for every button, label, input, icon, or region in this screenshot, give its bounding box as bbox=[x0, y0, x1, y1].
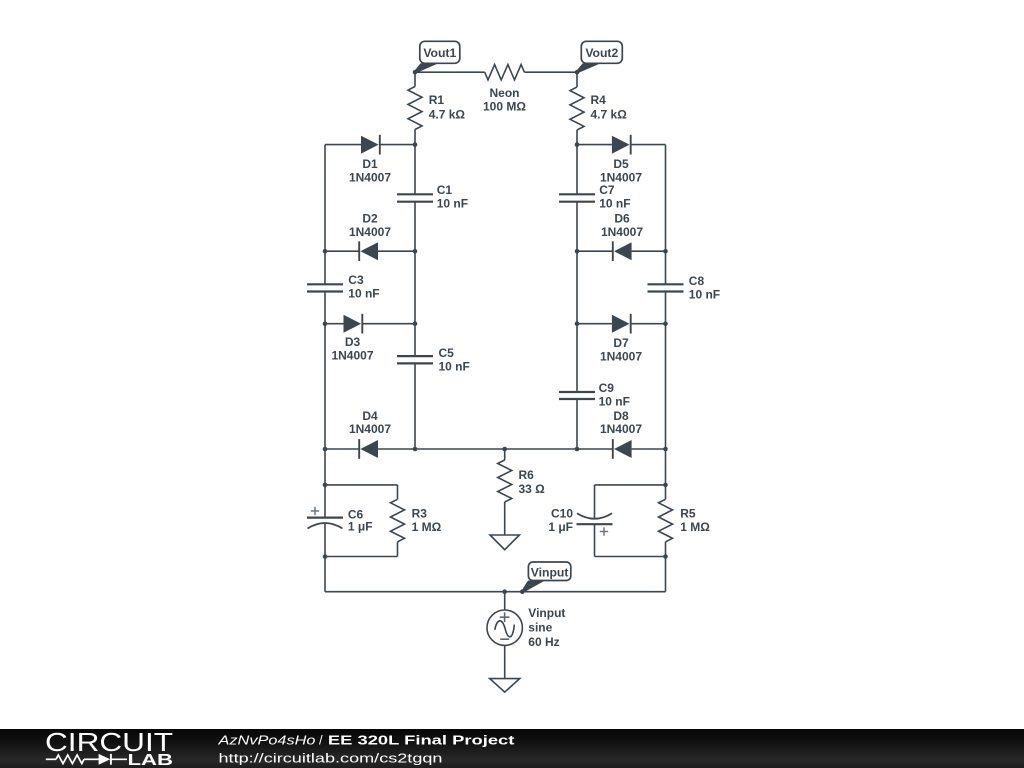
resistor R5 bbox=[659, 499, 673, 591]
diode D1 bbox=[325, 135, 415, 155]
logo resistor-diode line bbox=[46, 754, 127, 765]
node D2 left junction bbox=[323, 249, 328, 254]
capacitor C3 bbox=[307, 284, 343, 291]
svg-text:1N4007: 1N4007 bbox=[600, 349, 642, 363]
node D4 right junction bbox=[413, 447, 418, 452]
svg-text:R6: R6 bbox=[519, 468, 535, 482]
svg-text:1N4007: 1N4007 bbox=[349, 225, 391, 239]
capacitor C1 bbox=[397, 194, 433, 201]
capacitor C7 bbox=[559, 194, 595, 201]
svg-text:C8: C8 bbox=[689, 274, 705, 288]
wire top rail left (Vout1 to Neon) bbox=[415, 71, 485, 73]
svg-text:Vout1: Vout1 bbox=[423, 46, 456, 60]
node at Vout1 bbox=[413, 70, 418, 75]
node R5 top junction bbox=[663, 483, 668, 488]
flag Vout1 bbox=[414, 41, 460, 73]
svg-text:C1: C1 bbox=[437, 183, 453, 197]
diode D4 bbox=[325, 439, 415, 459]
svg-text:R1: R1 bbox=[429, 93, 445, 107]
svg-text:Vinput: Vinput bbox=[531, 565, 569, 579]
svg-text:D1: D1 bbox=[362, 157, 378, 171]
wire left rail of left ladder (x=325) bbox=[324, 145, 326, 285]
svg-text:10 nF: 10 nF bbox=[599, 395, 630, 409]
node D6 right junction bbox=[663, 249, 668, 254]
resistor R3 bbox=[391, 485, 405, 557]
svg-text:1N4007: 1N4007 bbox=[349, 422, 391, 436]
node C6 top junction bbox=[323, 483, 328, 488]
svg-text:EE 320L Final Project: EE 320L Final Project bbox=[328, 732, 515, 747]
node D3 right junction bbox=[413, 321, 418, 326]
svg-text:4.7 kΩ: 4.7 kΩ bbox=[429, 107, 466, 121]
svg-text:60 Hz: 60 Hz bbox=[528, 635, 559, 649]
wire bottom net bbox=[325, 591, 666, 593]
svg-text:D4: D4 bbox=[362, 409, 378, 423]
svg-text:D3: D3 bbox=[345, 335, 361, 349]
node D8 left junction bbox=[575, 447, 580, 452]
diode D3 bbox=[325, 314, 415, 334]
svg-text:1N4007: 1N4007 bbox=[600, 422, 642, 436]
node D6 left junction bbox=[575, 249, 580, 254]
svg-text:C3: C3 bbox=[348, 273, 364, 287]
resistor R4 bbox=[576, 72, 578, 87]
svg-text:1 MΩ: 1 MΩ bbox=[680, 520, 710, 534]
resistor R6 bbox=[498, 449, 512, 535]
node at Vout2 bbox=[575, 70, 580, 75]
node R6 top junction bbox=[502, 447, 507, 452]
svg-text:/: / bbox=[319, 732, 323, 747]
svg-text:1N4007: 1N4007 bbox=[600, 170, 642, 184]
diode D6 bbox=[577, 241, 666, 261]
svg-text:R5: R5 bbox=[680, 507, 696, 521]
diode D5 bbox=[577, 135, 666, 155]
svg-text:10 nF: 10 nF bbox=[439, 359, 470, 373]
diode D8 bbox=[577, 439, 666, 459]
svg-text:1 μF: 1 μF bbox=[348, 520, 373, 534]
wire bottom ladder row (x=415 to x=577) bbox=[415, 448, 577, 450]
svg-text:1 MΩ: 1 MΩ bbox=[412, 520, 442, 534]
svg-text:1N4007: 1N4007 bbox=[349, 170, 391, 184]
node D3 left junction bbox=[323, 321, 328, 326]
svg-text:AzNvPo4sHo: AzNvPo4sHo bbox=[217, 732, 315, 747]
capacitor C10 (polarized) bbox=[577, 485, 613, 557]
resistor R1 bbox=[414, 72, 416, 86]
svg-text:4.7 kΩ: 4.7 kΩ bbox=[591, 107, 628, 121]
svg-text:D5: D5 bbox=[613, 157, 629, 171]
ground under R6 bbox=[490, 535, 519, 550]
capacitor C8 bbox=[648, 284, 684, 291]
node D8 right junction bbox=[663, 447, 668, 452]
node D7 left junction bbox=[575, 321, 580, 326]
svg-text:C10: C10 bbox=[551, 506, 573, 520]
node D2 right junction bbox=[413, 249, 418, 254]
wire top rail right (Neon to Vout2) bbox=[524, 71, 577, 73]
svg-text:Vinput: Vinput bbox=[528, 606, 565, 620]
svg-text:10 nF: 10 nF bbox=[599, 197, 630, 211]
svg-text:R3: R3 bbox=[412, 507, 428, 521]
node D4 left junction bbox=[323, 447, 328, 452]
capacitor C9 bbox=[559, 392, 595, 399]
svg-text:D7: D7 bbox=[613, 336, 629, 350]
voltage source Vinput bbox=[487, 592, 522, 679]
wire left sub-loop bottom bbox=[325, 556, 398, 558]
svg-text:LAB: LAB bbox=[128, 752, 174, 768]
node Vinput flag junction bbox=[520, 589, 525, 594]
wire right rail of left ladder (x=415) bbox=[414, 145, 416, 195]
svg-text:C9: C9 bbox=[599, 381, 615, 395]
svg-text:D6: D6 bbox=[614, 212, 630, 226]
svg-text:Vout2: Vout2 bbox=[585, 46, 618, 60]
node source stem junction bbox=[502, 589, 507, 594]
node R1/D1/C1 junction bbox=[413, 142, 418, 147]
svg-text:100 MΩ: 100 MΩ bbox=[483, 100, 526, 114]
svg-text:D2: D2 bbox=[362, 212, 378, 226]
wire left rail of right ladder (x=577) bbox=[576, 145, 578, 195]
ground under Vinput source bbox=[490, 679, 520, 693]
wire right rail of right ladder (x=665.5) bbox=[665, 145, 667, 285]
capacitor C6 (polarized) bbox=[307, 507, 343, 529]
svg-text:10 nF: 10 nF bbox=[437, 197, 468, 211]
svg-text:C5: C5 bbox=[439, 346, 455, 360]
flag Vinput bbox=[521, 562, 570, 593]
svg-text:http://circuitlab.com/cs2tgqn: http://circuitlab.com/cs2tgqn bbox=[219, 751, 443, 766]
svg-text:33 Ω: 33 Ω bbox=[519, 482, 546, 496]
svg-text:1N4007: 1N4007 bbox=[331, 349, 373, 363]
capacitor C5 bbox=[397, 356, 433, 363]
node R5 bottom junction bbox=[663, 554, 668, 559]
diode D7 bbox=[577, 314, 666, 334]
svg-text:sine: sine bbox=[528, 621, 552, 635]
svg-text:D8: D8 bbox=[613, 409, 629, 423]
svg-text:R4: R4 bbox=[591, 93, 607, 107]
svg-text:10 nF: 10 nF bbox=[689, 287, 720, 301]
svg-text:C7: C7 bbox=[599, 183, 615, 197]
wire left sub-loop top bbox=[325, 484, 398, 486]
resistor Neon 100 MΩ bbox=[485, 65, 525, 80]
node D7 right junction bbox=[663, 321, 668, 326]
svg-text:Neon: Neon bbox=[490, 86, 520, 100]
svg-text:1N4007: 1N4007 bbox=[601, 225, 643, 239]
svg-text:1 μF: 1 μF bbox=[548, 520, 573, 534]
svg-text:10 nF: 10 nF bbox=[348, 287, 379, 301]
wire right sub-loop top bbox=[595, 484, 666, 486]
node R4/D5/C7 junction bbox=[575, 142, 580, 147]
diode D2 bbox=[325, 241, 415, 261]
flag Vout2 bbox=[576, 41, 623, 73]
wire right sub-loop bottom bbox=[595, 556, 666, 558]
node C6 bottom junction bbox=[323, 554, 328, 559]
